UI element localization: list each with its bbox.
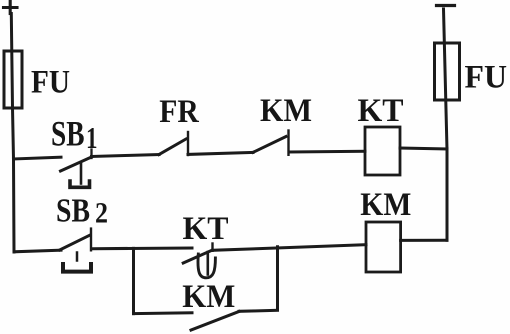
- self-holding contact KM (blade, bottom branch): [191, 312, 239, 331]
- KT delay symbol stem: [207, 252, 210, 275]
- wire: branch right vertical: [276, 247, 279, 310]
- svg-text:2: 2: [95, 197, 108, 230]
- KM fixed contact tick: [287, 131, 289, 155]
- pushbutton SB2 (NO contact blade): [60, 235, 90, 250]
- pushbutton SB1 (NO contact blade): [61, 157, 92, 171]
- SB2 operator stem: [76, 253, 79, 261]
- label SB2: [56, 193, 108, 230]
- svg-text:FR: FR: [159, 94, 200, 130]
- svg-text:KT: KT: [358, 93, 404, 129]
- thermal relay contact FR (blade): [159, 139, 186, 155]
- svg-text:SB: SB: [51, 114, 85, 154]
- wire: branch bottom, KM contact to right vertical: [239, 310, 278, 311]
- FR fixed contact tick: [187, 132, 189, 155]
- svg-text:KT: KT: [183, 211, 229, 247]
- plus supply terminal: [4, 2, 18, 14]
- wire: rung 2, SB2 to KT contact (passes branch node): [92, 247, 192, 251]
- wire: rung 1, KM contact to KT coil: [289, 150, 365, 154]
- SB2 fixed contact tick: [90, 229, 92, 251]
- wire: branch left vertical: [132, 248, 135, 313]
- time-delay contact KT (blade, rung 2): [183, 250, 212, 263]
- SB1 fixed contact tick: [90, 150, 92, 159]
- fuse FU2 (right): [435, 43, 460, 100]
- wire: rung 1, FR to KM contact: [188, 152, 253, 154]
- minus supply terminal: [437, 4, 455, 7]
- svg-text:KM: KM: [260, 93, 312, 129]
- label SB1: [51, 114, 98, 156]
- wire: right bus from - down through FU2 to rung 2 corner: [444, 9, 448, 240]
- coil KT (time relay): [365, 127, 400, 175]
- wire: left bus from + down through FU1 to rung 2 corner: [11, 14, 14, 253]
- fuse FU1 (left): [4, 51, 22, 108]
- svg-text:FU: FU: [31, 65, 70, 101]
- svg-text:FU: FU: [465, 60, 508, 96]
- wire: rung 2, KT contact to KM coil (passes branch right tee): [213, 245, 367, 251]
- KT contact fixed tick: [211, 244, 213, 251]
- wire: rung 1, SB1 to FR: [92, 155, 160, 157]
- wire: rung 1, left bus to SB1: [14, 157, 62, 159]
- wire: rung 2, left bus to SB2: [14, 250, 61, 252]
- SB2 operator button cup: [63, 264, 91, 272]
- SB1 operator stem: [80, 163, 83, 184]
- svg-text:KM: KM: [182, 279, 235, 315]
- wire: branch bottom, left to KM contact: [134, 311, 193, 315]
- wire: rung 2, KM coil to right bus corner: [401, 239, 447, 242]
- svg-text:SB: SB: [56, 193, 90, 230]
- svg-text:KM: KM: [360, 187, 411, 223]
- wire: rung 1, KT coil to right bus: [400, 148, 447, 149]
- KT delay symbol arc: [198, 254, 215, 278]
- svg-text:1: 1: [86, 120, 98, 155]
- coil KM (contactor): [366, 222, 401, 272]
- SB1 operator button cup: [70, 181, 90, 187]
- contactor contact KM (blade, rung 1): [253, 137, 286, 153]
